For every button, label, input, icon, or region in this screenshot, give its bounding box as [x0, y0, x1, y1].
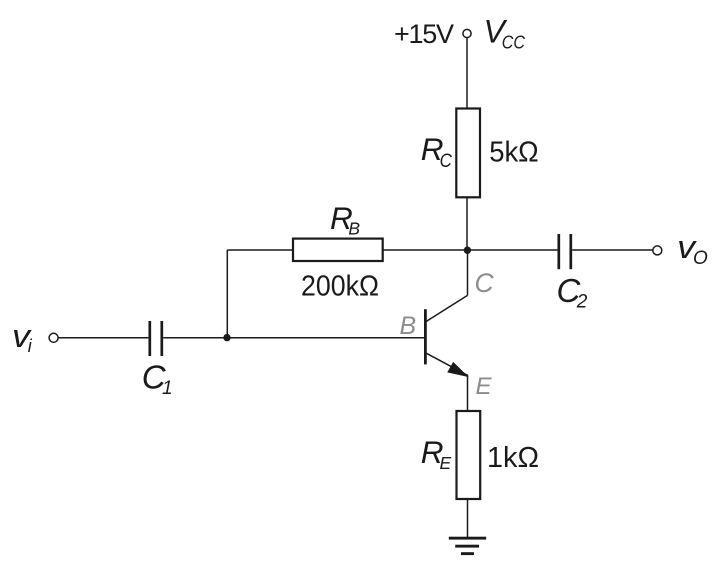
ground [449, 537, 486, 555]
resistor RB [293, 239, 383, 261]
node VCC terminal [463, 29, 471, 37]
wire node to RB (right side) [383, 249, 467, 251]
label C1 [142, 358, 173, 399]
wire base node to transistor [227, 337, 425, 339]
wire RB to left riser [227, 249, 293, 251]
label vi [12, 318, 33, 356]
node vi terminal [49, 333, 58, 342]
resistor RE [457, 411, 481, 499]
node base junction [223, 334, 230, 341]
capacitor C1 [150, 321, 162, 356]
wire RC to collector node [466, 197, 468, 250]
svg-text:O: O [693, 248, 708, 269]
wire vi to C1 [58, 337, 148, 339]
svg-text:E: E [440, 453, 452, 473]
svg-text:5kΩ: 5kΩ [489, 137, 539, 169]
wire C1 to base node [163, 337, 227, 339]
wire node to C2 [467, 249, 557, 251]
svg-text:CC: CC [502, 33, 526, 53]
wire riser down to base line [226, 250, 228, 338]
wire VCC to RC [466, 38, 468, 109]
node vO terminal [653, 246, 662, 255]
svg-text:B: B [400, 312, 417, 340]
svg-text:E: E [476, 373, 493, 400]
label VCC [484, 14, 526, 53]
svg-text:2: 2 [576, 292, 588, 313]
wire C2 to vO terminal [572, 249, 653, 251]
wire RE to ground [467, 499, 469, 537]
label RB [330, 200, 360, 238]
svg-text:B: B [348, 218, 360, 238]
node collector junction [464, 247, 471, 254]
label RE [421, 434, 452, 473]
svg-text:200kΩ: 200kΩ [301, 271, 379, 303]
label RC [421, 131, 453, 172]
label vO [677, 229, 708, 269]
wire emitter to RE [467, 375, 469, 412]
svg-text:C: C [440, 150, 453, 172]
capacitor C2 [559, 234, 571, 269]
svg-text:1kΩ: 1kΩ [487, 442, 539, 474]
svg-text:C: C [475, 268, 495, 298]
svg-text:1: 1 [162, 378, 173, 399]
svg-text:+15V: +15V [394, 19, 454, 49]
wire collector to node [467, 250, 469, 295]
resistor RC [456, 109, 480, 198]
label C2 [557, 272, 588, 313]
transistor Q1 [425, 295, 467, 376]
